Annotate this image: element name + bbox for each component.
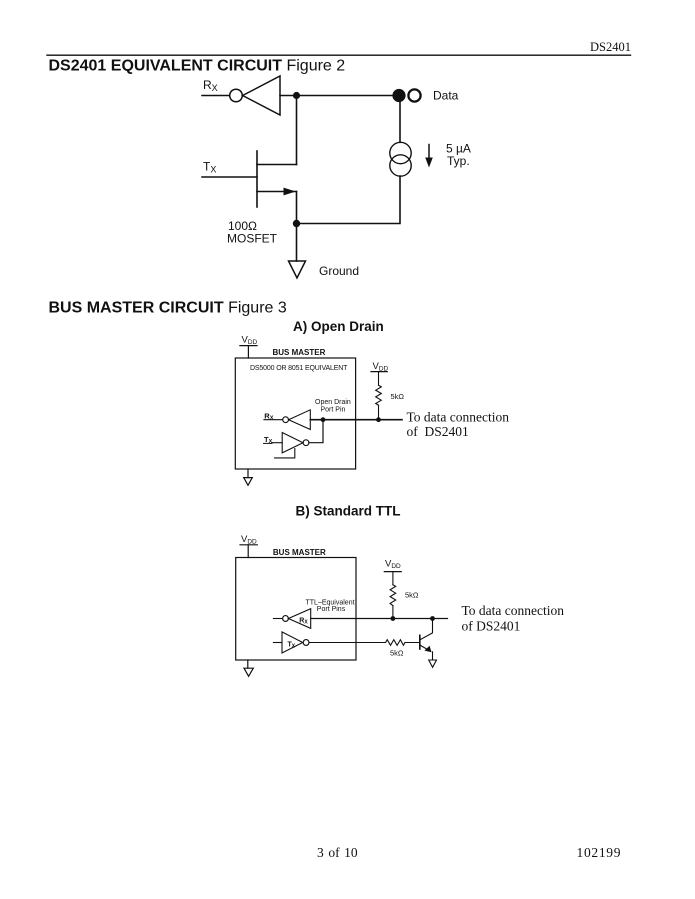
driver triangle fig3a Tx (282, 433, 303, 453)
resistor R1 5k fig3a (376, 385, 382, 405)
junction dot fig3b resistor (391, 616, 396, 621)
svg-text:VDD: VDD (241, 534, 257, 546)
svg-text:BUS MASTER: BUS MASTER (273, 548, 326, 557)
enable stub fig3a Tx (275, 449, 295, 458)
ground fig3a (244, 478, 253, 486)
ground (289, 261, 306, 278)
wire box ground fig3b (247, 660, 249, 668)
inverter bubble fig3a Rx (283, 417, 289, 423)
wire emitter to ground (432, 652, 434, 660)
svg-text:Typ.: Typ. (447, 154, 470, 168)
junction node B (293, 220, 300, 227)
wire Tx output fig3b (309, 642, 386, 644)
junction dot fig3b collector (430, 616, 435, 621)
svg-text:3 of 10: 3 of 10 (317, 845, 358, 860)
svg-text:DS2401: DS2401 (590, 40, 631, 54)
resistor R2 5k fig3b vertical (390, 585, 396, 606)
op-amp U1 receiver triangle (243, 76, 280, 115)
wire box ground fig3a (247, 469, 249, 478)
wire VDD to box (247, 346, 249, 358)
svg-text:VDD: VDD (242, 335, 258, 347)
Data terminal dot (392, 89, 405, 102)
transistor Q1 channel (256, 151, 258, 207)
svg-text:Port Pins: Port Pins (317, 606, 346, 613)
resistor R3 5k horizontal (386, 640, 406, 646)
wire Tx input fig3b (273, 642, 282, 644)
svg-text:B) Standard TTL: B) Standard TTL (296, 504, 401, 519)
transistor Q2 emitter (420, 645, 431, 651)
bus master box fig3a (235, 358, 355, 469)
svg-text:BUS MASTER CIRCUIT Figure 3: BUS MASTER CIRCUIT Figure 3 (49, 299, 287, 316)
driver triangle fig3b Tx (282, 632, 303, 653)
inverter bubble fig3b Tx (303, 640, 309, 646)
svg-text:RX: RX (299, 618, 308, 626)
wire inverter output to Data (280, 95, 399, 97)
svg-text:5kΩ: 5kΩ (391, 392, 405, 401)
svg-text:5kΩ: 5kΩ (405, 591, 419, 600)
ground fig3b transistor (429, 660, 437, 667)
current direction arrow (428, 145, 430, 160)
receiver triangle fig3a Rx (289, 410, 311, 430)
wire source tap (257, 191, 297, 193)
junction dot fig3a resistor (376, 417, 381, 422)
bus master box fig3b (236, 558, 356, 661)
Data terminal open circle (408, 89, 420, 101)
svg-text:TX: TX (203, 160, 216, 175)
inverter bubble fig3b Rx (283, 616, 289, 622)
wire port pin line fig3a (310, 419, 402, 421)
wire resistor to line (378, 405, 380, 420)
wire Tx output to junction (309, 420, 323, 443)
header rule (47, 54, 631, 56)
svg-text:of DS2401: of DS2401 (462, 618, 521, 633)
wire Tx gate (202, 176, 257, 178)
svg-text:Data: Data (433, 89, 459, 103)
wire Rx fig3a (264, 419, 283, 421)
transistor Q2 base bar (419, 635, 421, 649)
svg-text:Port Pin: Port Pin (321, 407, 346, 414)
svg-text:To data connection: To data connection (407, 410, 510, 425)
wire drain tap (257, 164, 297, 166)
svg-text:102199: 102199 (577, 845, 622, 860)
svg-text:A) Open Drain: A) Open Drain (293, 319, 384, 334)
wire port pin line fig3b (311, 618, 448, 620)
svg-text:BUS MASTER: BUS MASTER (273, 348, 326, 357)
wire resistor to line fig3b (392, 606, 394, 619)
wire node A to drain (296, 96, 298, 165)
wire Tx fig3a (272, 442, 282, 444)
svg-text:of DS2401: of DS2401 (407, 424, 469, 439)
svg-text:DS5000 OR 8051 EQUIVALENT: DS5000 OR 8051 EQUIVALENT (250, 365, 348, 372)
svg-text:MOSFET: MOSFET (227, 232, 278, 246)
svg-text:To data connection: To data connection (462, 603, 565, 618)
inverter bubble U1 (230, 89, 243, 102)
wire VDD to resistor (378, 372, 380, 386)
wire Rx input (202, 95, 230, 97)
wire source to node B (296, 192, 298, 224)
svg-text:TX: TX (288, 642, 296, 650)
svg-text:DS2401 EQUIVALENT CIRCUIT Figu: DS2401 EQUIVALENT CIRCUIT Figure 2 (49, 57, 346, 74)
svg-text:Ground: Ground (319, 264, 359, 278)
current source I1 (390, 142, 411, 163)
ground fig3b box (244, 668, 253, 676)
wire node B to ground (296, 224, 298, 262)
wire resistor to base (405, 642, 420, 644)
svg-text:VDD: VDD (385, 558, 401, 570)
svg-text:RX: RX (203, 78, 218, 93)
transistor Q1 source arrow (284, 188, 296, 196)
receiver triangle fig3b Rx (288, 609, 310, 629)
wire current source to Data (399, 96, 401, 143)
svg-text:VDD: VDD (373, 361, 389, 373)
wire Rx input fig3b (273, 618, 282, 620)
transistor Q2 collector (420, 619, 433, 640)
junction dot fig3a port pin (321, 417, 326, 422)
svg-text:5kΩ: 5kΩ (390, 649, 404, 658)
junction node A (293, 92, 300, 99)
wire VDD to box fig3b (247, 545, 249, 558)
wire VDD to resistor fig3b (392, 572, 394, 585)
svg-text:Open Drain: Open Drain (315, 399, 351, 406)
wire node B to current source (297, 176, 401, 224)
inverter bubble fig3a Tx (303, 440, 309, 446)
